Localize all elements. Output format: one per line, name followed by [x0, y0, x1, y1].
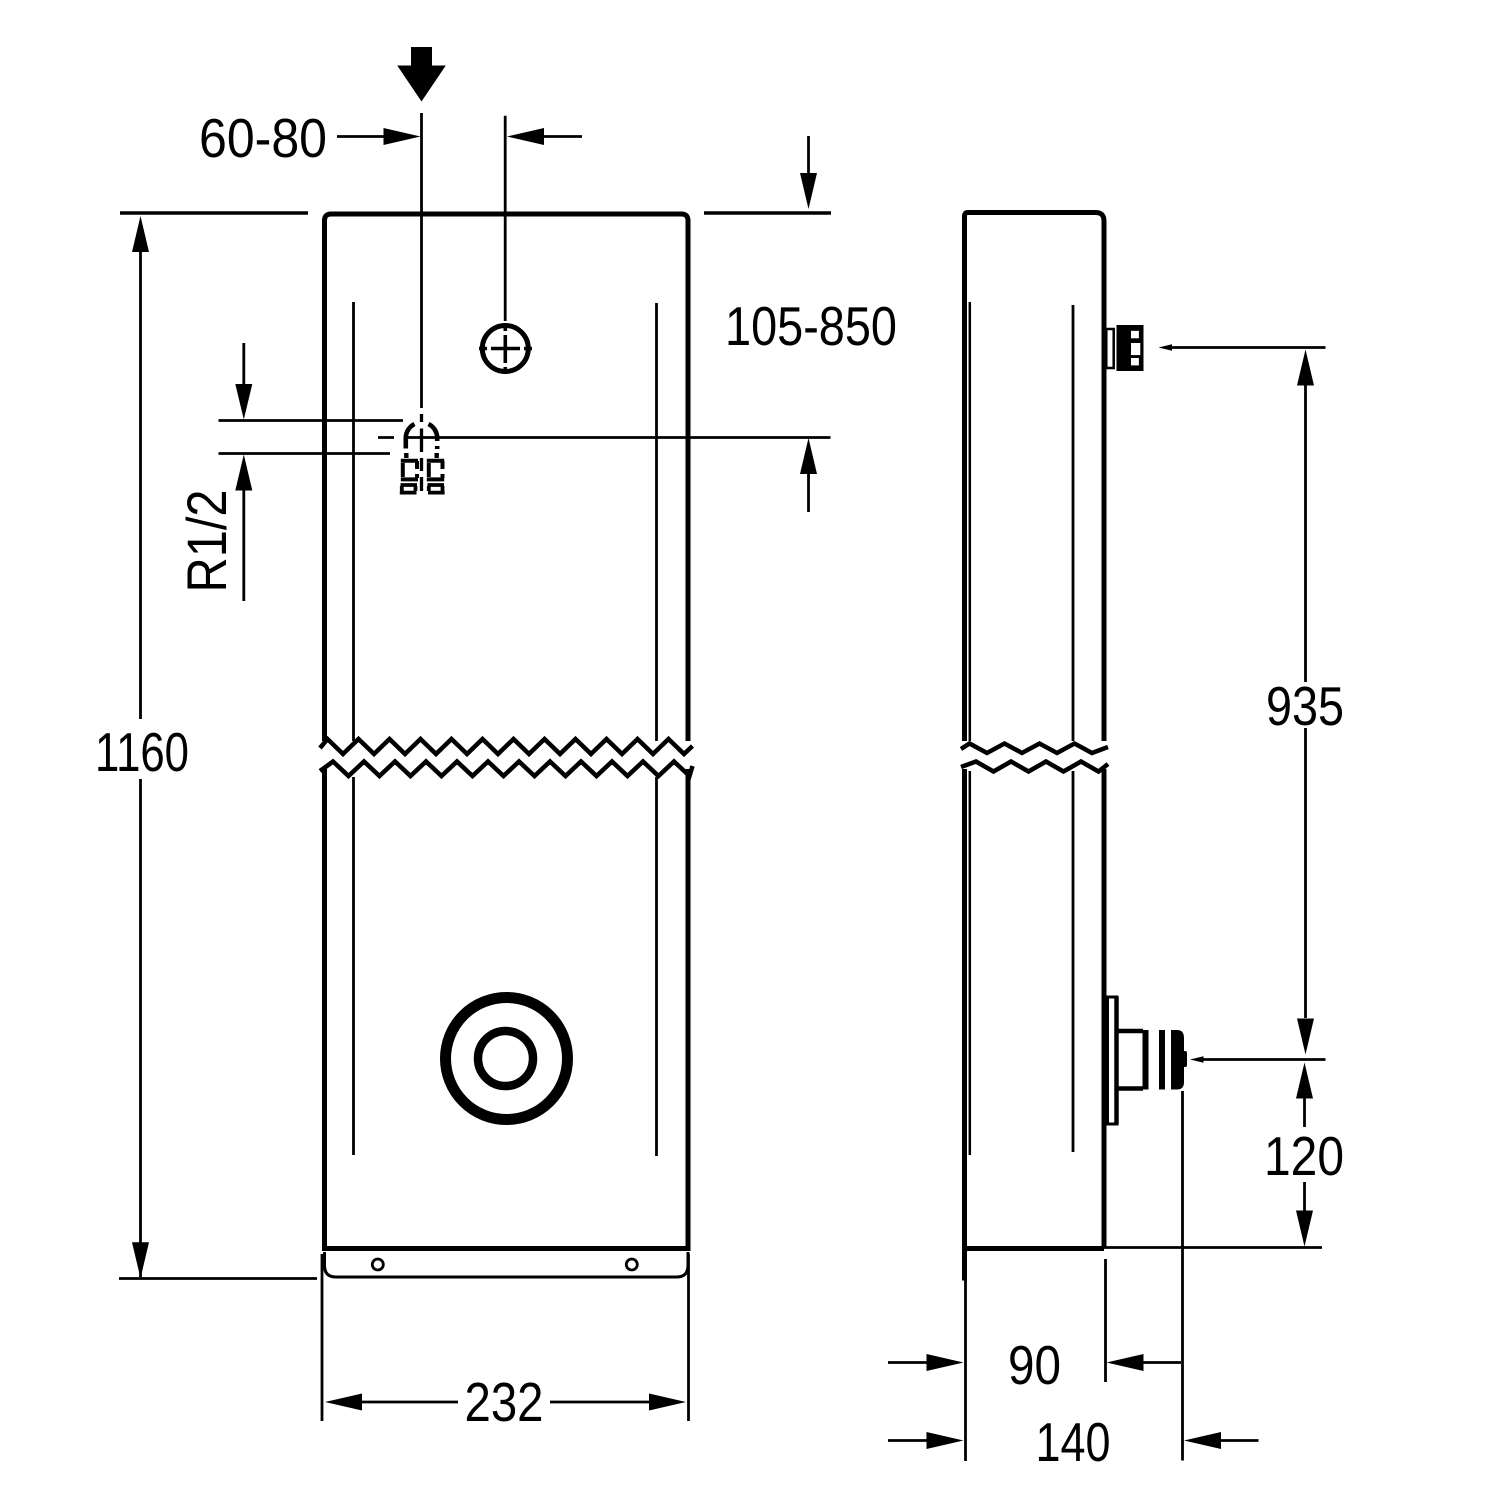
bottom outlet connector neck: [1117, 1031, 1143, 1089]
bottom outlet connector threads: [1143, 1030, 1149, 1090]
leader line bottom connector (120 reference): [1190, 1056, 1204, 1063]
screw hole right: [626, 1259, 637, 1270]
side panel outline lower part: [962, 769, 1104, 1281]
extension line bottom-left (1160 reference): [119, 1277, 317, 1280]
front inner groove line right: [655, 303, 658, 1156]
side inner line near wall: [969, 302, 972, 1155]
arrow down to panel top (105-850): [807, 136, 810, 174]
extension line 140 right: [1181, 1091, 1184, 1461]
push button outer ring: [446, 998, 568, 1120]
svg-text:1160: 1160: [95, 721, 189, 783]
installation direction block arrow: [397, 47, 446, 102]
front panel outline lower part: [322, 769, 691, 1249]
outlet centre line vertical dashes: [420, 414, 423, 491]
outlet symbol arch (dashed): [406, 424, 415, 449]
small dimension arrow up (R1/2 leader): [235, 455, 252, 491]
outlet centre line horizontal: [378, 436, 831, 439]
dimension line 1160: [132, 216, 149, 252]
svg-text:R1/2: R1/2: [175, 490, 238, 593]
crosshair vertical dashes: [503, 324, 507, 374]
side panel outline upper part: [965, 213, 1105, 742]
dimension line 935: [1297, 350, 1314, 386]
crosshair horizontal dashes: [479, 347, 532, 351]
fixing hole crosshair circle: [482, 326, 528, 372]
outlet symbol right lip (dashed): [428, 485, 445, 493]
dimension line 140: [888, 1439, 927, 1442]
front inner groove line left: [352, 302, 355, 1155]
extension line 232 left: [321, 1254, 324, 1421]
arrow up to outlet centre line (105-850): [800, 438, 817, 474]
small dimension arrow down (outlet): [242, 343, 245, 386]
side inner groove line: [1072, 305, 1075, 1152]
outlet symbol left box (dashed): [401, 461, 418, 480]
top water inlet fitting body: [1117, 325, 1144, 371]
dimension line 90: [888, 1361, 927, 1364]
screw hole left: [372, 1259, 383, 1270]
front base plate: [325, 1252, 689, 1277]
extension line 90 right: [1104, 1259, 1107, 1382]
dimension line 60-80: [337, 135, 384, 138]
wire: vertical line to fixing hole: [504, 116, 507, 321]
svg-text:90: 90: [1008, 1334, 1061, 1396]
extension line top-right (105-850 reference): [704, 211, 831, 214]
dimension line 232: [325, 1394, 362, 1411]
extension line outlet lower: [219, 452, 391, 455]
outlet symbol side dashes: [406, 453, 436, 458]
top water inlet fitting flange: [1106, 329, 1113, 368]
break zigzag side upper: [961, 744, 1108, 754]
svg-text:232: 232: [465, 1371, 544, 1433]
front panel outline upper part: [325, 214, 689, 741]
dimension line 120: [1296, 1063, 1313, 1099]
side bottom extension line: [1104, 1246, 1322, 1249]
break zigzag front lower: [320, 762, 693, 777]
outlet symbol left lip (dashed): [400, 485, 417, 493]
extension line top-left (1160 reference): [120, 211, 308, 214]
svg-text:105-850: 105-850: [725, 295, 897, 357]
svg-text:120: 120: [1264, 1125, 1344, 1187]
svg-text:60-80: 60-80: [199, 107, 327, 169]
push button inner circle: [478, 1031, 533, 1086]
svg-text:140: 140: [1036, 1411, 1111, 1473]
side wall extension line (90/140 reference): [964, 1281, 967, 1462]
outlet symbol right box (dashed): [427, 461, 444, 480]
leader line top fitting (935 reference): [1159, 344, 1173, 351]
bottom outlet connector flange: [1108, 997, 1118, 1124]
break zigzag front upper: [320, 739, 693, 754]
extension line outlet upper: [219, 419, 404, 422]
extension line 232 right: [687, 1254, 690, 1421]
break zigzag side lower: [961, 762, 1108, 772]
svg-text:935: 935: [1266, 675, 1344, 737]
wire: vertical centre line below block arrow: [420, 113, 423, 408]
